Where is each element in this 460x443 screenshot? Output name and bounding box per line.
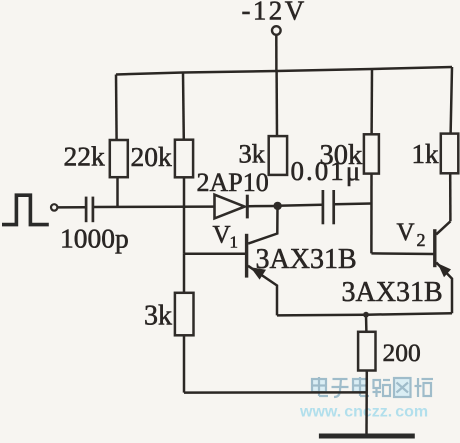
emitter bus junction dot bbox=[363, 312, 369, 318]
transistor V2 emitter arrow bbox=[438, 263, 451, 277]
resistor 30k bbox=[364, 134, 379, 173]
wire -12V terminal drop bbox=[275, 35, 278, 71]
wire 200 bottom to ground bbox=[365, 370, 368, 434]
resistor 20k bbox=[175, 140, 193, 178]
wire V2 collector diagonal bbox=[436, 221, 450, 234]
svg-text:200: 200 bbox=[383, 338, 421, 367]
svg-text:-12V: -12V bbox=[242, 0, 307, 26]
wire V1 collector bbox=[248, 206, 277, 244]
wire 30k bottom down to V2 base corner bbox=[370, 173, 373, 253]
node A junction dot bbox=[273, 202, 281, 210]
input terminal bbox=[51, 204, 57, 210]
wire node A to 0.01u bbox=[278, 205, 322, 206]
svg-text:3AX31B: 3AX31B bbox=[342, 277, 443, 308]
svg-text:V: V bbox=[213, 222, 231, 249]
svg-text:22k: 22k bbox=[64, 141, 106, 172]
wire V1 emitter leg bbox=[248, 266, 277, 316]
svg-text:3k: 3k bbox=[239, 139, 266, 169]
svg-text:1000p: 1000p bbox=[60, 223, 129, 254]
capacitor C 1000p bbox=[86, 197, 93, 223]
transistor V1 base bar bbox=[245, 234, 248, 278]
wire emitter bus to 200 top bbox=[365, 315, 368, 333]
svg-text:www.cnczz.com: www.cnczz.com bbox=[299, 404, 428, 421]
wire 22k bottom to input node bbox=[116, 177, 119, 208]
wire 1000p to diode anode bbox=[94, 205, 214, 208]
ground bbox=[319, 434, 415, 439]
input pulse symbol bbox=[2, 195, 49, 224]
svg-text:3k: 3k bbox=[144, 301, 172, 332]
wire emitter bus bbox=[277, 313, 452, 315]
wire bus to 22k top bbox=[115, 75, 118, 141]
capacitor C 0.01u bbox=[323, 190, 334, 224]
resistor 200 bbox=[358, 332, 375, 371]
wire V1 base line bbox=[184, 252, 245, 255]
wire bus to 3k resistor top bbox=[275, 71, 278, 137]
svg-text:3AX31B: 3AX31B bbox=[256, 244, 357, 275]
svg-text:0.01μ: 0.01μ bbox=[291, 156, 363, 186]
svg-text:2: 2 bbox=[417, 230, 426, 250]
resistor 3k (collector V1) bbox=[269, 136, 287, 175]
wire input terminal to 1000p bbox=[58, 206, 85, 209]
wire 1k bottom to V2 collector node bbox=[449, 173, 452, 221]
diode VD 2AP10 bbox=[215, 195, 248, 219]
wire base tee down to lower 3k top bbox=[183, 254, 186, 294]
wire lower 3k bottom to corner bbox=[183, 335, 186, 393]
transistor V1 emitter arrow bbox=[251, 267, 267, 279]
svg-text:1k: 1k bbox=[412, 139, 440, 169]
wire V2 base line bbox=[371, 252, 433, 255]
wire bus to 1k top bbox=[451, 67, 452, 134]
wire 0.01u to 30k leg bbox=[335, 202, 372, 205]
svg-text:20k: 20k bbox=[131, 141, 173, 172]
wire top supply bus bbox=[116, 67, 452, 75]
watermark site name 电子电路图站 bbox=[312, 377, 433, 397]
resistor 22k bbox=[110, 140, 128, 177]
resistor 1k bbox=[441, 134, 459, 174]
wire bus to 30k top bbox=[370, 69, 373, 135]
-12V terminal bbox=[272, 26, 281, 35]
svg-text:1: 1 bbox=[230, 233, 239, 252]
transistor V2 base bar bbox=[433, 229, 436, 267]
svg-text:2AP10: 2AP10 bbox=[197, 168, 269, 197]
wire diode cathode to node A bbox=[249, 205, 278, 208]
wire 20k bottom down to V1 base tee bbox=[183, 177, 186, 254]
wire V2 emitter leg bbox=[436, 263, 452, 314]
resistor 3k (base bias) bbox=[175, 293, 194, 336]
svg-text:V: V bbox=[397, 219, 415, 246]
wire bus to 20k top bbox=[182, 73, 185, 141]
wire bottom run to 200 leg bbox=[184, 391, 366, 394]
